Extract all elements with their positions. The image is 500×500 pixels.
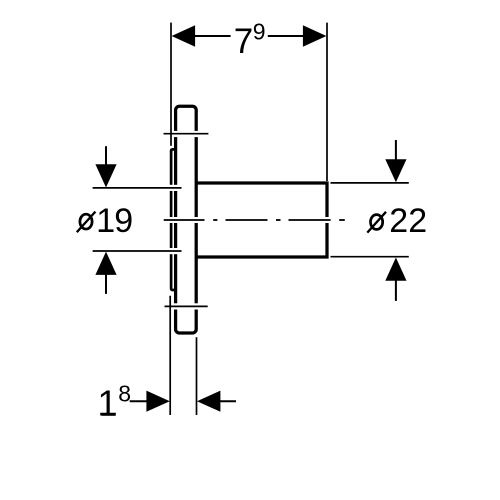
dimension 1^8 bottom: right arrow (points left) [220,400,237,402]
centerline dash-dot [164,219,345,221]
label d22: diameter symbol [371,215,383,230]
extension line d22 bottom [331,256,409,258]
extension line top-left [170,23,172,146]
extension line bottom-left [169,296,171,415]
svg-text:22: 22 [389,202,427,240]
svg-text:7: 7 [234,22,253,61]
flange plate (front, rounded rectangle) [176,106,197,333]
dimension line d19 top [93,187,182,189]
d19 top arrow (down) [105,146,107,168]
dimension line d19 bottom [93,250,182,252]
svg-text:9: 9 [114,202,133,240]
d19 bottom arrow (up) [105,272,107,294]
extension line top-right [326,23,328,181]
svg-text:8: 8 [118,381,131,407]
hidden plate / cover behind flange [171,149,176,290]
svg-text:1: 1 [96,202,115,240]
extension line bottom-right [196,337,198,415]
tick line upper across flange [164,133,209,135]
tube body [196,183,327,257]
d22 top arrow (down) [395,140,397,162]
white gaps in outlines at line crossings [169,131,329,310]
svg-text:9: 9 [253,18,266,44]
d22 bottom arrow (up) [395,279,397,301]
dimension 7^9 top: left arrow [172,25,196,46]
svg-text:1: 1 [98,383,118,424]
dimension 7^9 top: right arrow [303,25,327,46]
label d19: diameter symbol [80,214,92,229]
dimension 1^8 bottom: left arrow (points right) [130,400,147,402]
extension line d22 top [331,182,409,184]
tick line lower across flange [165,305,208,307]
